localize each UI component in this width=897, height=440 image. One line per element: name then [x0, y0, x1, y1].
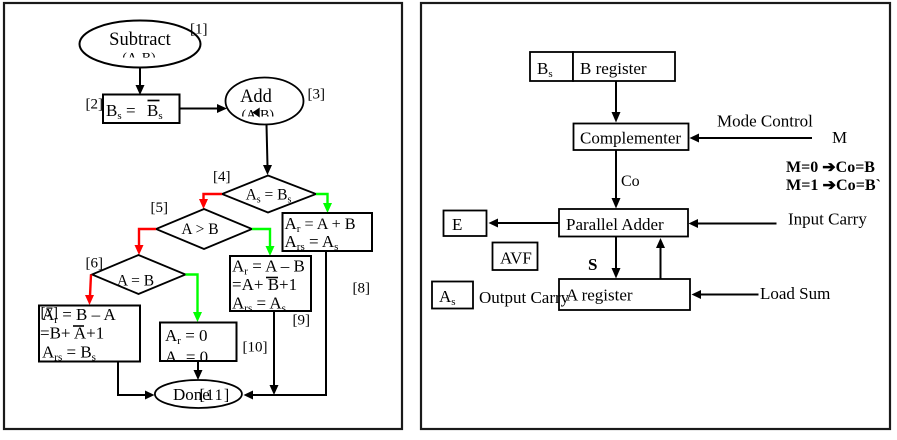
label M=0 -> Co=B — [786, 159, 875, 176]
label Load Sum — [760, 284, 830, 303]
svg-text:E: E — [452, 215, 462, 234]
red wire diamond4 to diamond5 — [199, 194, 222, 209]
box Complementer — [574, 124, 689, 151]
svg-text:S: S — [588, 255, 597, 274]
svg-text:=A+ B+1: =A+ B+1 — [232, 275, 297, 294]
svg-text:[6]: [6] — [86, 256, 104, 272]
wire box8 to Done — [244, 251, 327, 400]
label [3] — [308, 87, 326, 103]
box Parallel Adder — [559, 209, 688, 237]
svg-text:[7]: [7] — [41, 305, 59, 321]
label [5] — [151, 200, 169, 216]
svg-text:A = B: A = B — [117, 273, 154, 290]
ellipse Subtract (A-B) [terminal 1] — [80, 21, 201, 68]
label Input Carry — [788, 210, 867, 229]
svg-text:Ars = As: Ars = As — [232, 294, 286, 315]
label [9] — [293, 313, 311, 329]
label Co — [621, 173, 640, 190]
wire box10 to Done — [194, 362, 203, 381]
svg-text:Input Carry: Input Carry — [788, 210, 867, 229]
svg-text:Mode Control: Mode Control — [717, 112, 813, 131]
svg-text:[11]: [11] — [200, 387, 231, 404]
wire box9 to junction — [270, 311, 279, 395]
box B register — [573, 52, 675, 81]
diamond decision As = Bs [4] — [222, 176, 316, 213]
box Bs (sign of B register) — [530, 52, 573, 81]
svg-text:=: = — [126, 101, 136, 120]
green wire diamond4 to box8 — [316, 194, 332, 213]
green wire diamond6 to box10 — [186, 275, 203, 323]
wire Input Carry into Parallel Adder — [689, 219, 777, 228]
box10 Ar = 0 / As = 0 — [160, 323, 237, 369]
svg-text:[5]: [5] — [151, 200, 169, 216]
left panel frame — [4, 3, 402, 429]
svg-text:Ar = 0: Ar = 0 — [165, 326, 208, 347]
svg-text:Add: Add — [240, 87, 273, 107]
box8 Ar = A + B / Ars = As — [283, 213, 373, 253]
svg-text:Ars = As: Ars = As — [285, 232, 339, 253]
box A register — [559, 279, 690, 310]
svg-text:Output Carry: Output Carry — [479, 288, 570, 307]
label [7] overlapping box7 — [41, 305, 59, 321]
label [4] — [213, 169, 231, 185]
wire box7 to Done — [118, 362, 155, 400]
red wire diamond6 to box7 — [85, 275, 94, 306]
wire box2 to Add — [180, 104, 228, 113]
box AVF — [493, 243, 538, 271]
svg-text:Subtract: Subtract — [109, 30, 172, 50]
svg-text:A > B: A > B — [181, 221, 218, 238]
svg-text:[3]: [3] — [308, 87, 326, 103]
svg-text:As = Bs: As = Bs — [246, 187, 292, 206]
label [10] — [243, 340, 268, 356]
green wire diamond5 to box9 — [252, 229, 275, 256]
wire B register to Complementer — [612, 81, 621, 123]
diamond decision A > B [5] — [156, 209, 252, 249]
svg-text:[1]: [1] — [190, 22, 208, 38]
label [11] overlapping Done — [200, 387, 231, 404]
svg-text:[2]: [2] — [86, 97, 104, 113]
svg-text:B register: B register — [580, 59, 647, 78]
wire Add to diamond4 — [263, 125, 272, 176]
label M — [832, 128, 847, 147]
svg-text:Co: Co — [621, 173, 640, 190]
svg-text:Ars = Bs: Ars = Bs — [42, 343, 96, 364]
svg-text:[10]: [10] — [243, 340, 268, 356]
svg-text:Complementer: Complementer — [580, 129, 681, 148]
box9 Ar = A - B / =A+ B'+1 / Ars = As — [230, 256, 311, 315]
wire Parallel Adder to E — [489, 219, 560, 228]
label S — [588, 255, 597, 274]
svg-text:AVF: AVF — [500, 249, 532, 268]
label [6] — [86, 256, 104, 272]
svg-text:M: M — [832, 128, 847, 147]
label [2] — [86, 97, 104, 113]
svg-text:[9]: [9] — [293, 313, 311, 329]
svg-text:[4]: [4] — [213, 169, 231, 185]
wire Mode Control into Complementer — [690, 134, 813, 143]
svg-text:A register: A register — [566, 286, 633, 305]
label Output Carry — [479, 288, 570, 307]
label Mode Control — [717, 112, 813, 131]
diamond decision A = B [6] — [92, 255, 186, 294]
svg-text:[8]: [8] — [353, 281, 371, 297]
label [8] — [353, 281, 371, 297]
box7 Ar = B - A / =B+ A'+1 / Ars = Bs — [39, 305, 140, 364]
box As (sign of A register) — [432, 282, 473, 309]
svg-text:=B+ A+1: =B+ A+1 — [40, 324, 104, 343]
wire Load Sum into A register — [692, 290, 759, 299]
box B_s = B_s complement [2] — [103, 95, 180, 124]
wire A register up to Parallel Adder — [656, 238, 665, 279]
wire Parallel Adder down to A register, node S — [612, 237, 621, 279]
ellipse Done [terminal 11] — [155, 380, 242, 408]
ellipse Add (A+B) [terminal 3] — [226, 78, 304, 125]
svg-text:M=1 ➔Co=B`: M=1 ➔Co=B` — [786, 177, 881, 194]
box E — [444, 211, 487, 237]
wire Complementer to Parallel Adder, node Co — [612, 150, 621, 209]
label [1] — [190, 22, 208, 38]
red wire diamond5 to diamond6 — [135, 229, 157, 255]
right panel frame — [421, 3, 890, 429]
svg-text:M=0 ➔Co=B: M=0 ➔Co=B — [786, 159, 875, 176]
svg-text:Load Sum: Load Sum — [760, 284, 830, 303]
wire Subtract to box2 — [136, 68, 145, 96]
label M=1 -> Co=B` — [786, 177, 881, 194]
svg-text:Parallel Adder: Parallel Adder — [566, 215, 664, 234]
